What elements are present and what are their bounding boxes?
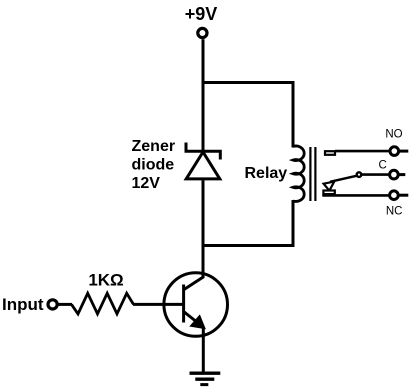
wire NO stub	[400, 150, 409, 153]
NC fixed contact pad	[323, 191, 334, 195]
svg-text:Zener: Zener	[132, 138, 176, 155]
wire NO contact to NO terminal	[335, 150, 390, 153]
terminal Input	[48, 300, 57, 309]
wire top branch to relay	[202, 81, 294, 84]
armature moving contact triangle	[324, 182, 335, 191]
relay coil L1	[293, 146, 304, 201]
wire NC contact to NC terminal	[322, 194, 389, 197]
armature diagonal	[330, 176, 357, 182]
transistor Q1 emitter diagonal	[184, 312, 198, 324]
svg-text:C: C	[378, 159, 386, 171]
armature pivot	[357, 172, 362, 177]
wire relay branch down to coil	[292, 81, 295, 148]
terminal C	[390, 170, 399, 179]
zener diode D1 triangle	[186, 152, 220, 179]
zener diode D1 cathode bar with ticks	[186, 143, 220, 160]
wire input terminal to resistor	[58, 303, 72, 306]
ground	[190, 372, 221, 375]
wire emitter down to ground	[202, 327, 205, 374]
relay core line 1	[309, 147, 311, 201]
wire bottom branch back to main line	[202, 244, 294, 247]
terminal +9V	[198, 28, 207, 37]
wire resistor to base	[133, 303, 184, 306]
wire zener anode down to transistor collector	[202, 180, 205, 277]
svg-text:+9V: +9V	[185, 4, 218, 24]
wire NC stub	[399, 194, 408, 197]
wire from +9V terminal down to zener cathode	[202, 39, 205, 151]
wire C stub	[399, 173, 405, 176]
svg-text:12V: 12V	[132, 175, 161, 192]
svg-text:Input: Input	[2, 295, 44, 314]
resistor R1 1K zigzag	[72, 293, 134, 314]
transistor Q1 emitter arrow	[191, 316, 205, 328]
svg-text:Relay: Relay	[245, 165, 288, 182]
transistor Q1 collector diagonal	[184, 277, 204, 290]
NO fixed contact pad	[325, 151, 335, 155]
svg-text:1KΩ: 1KΩ	[88, 271, 123, 290]
terminal NC	[390, 191, 399, 200]
svg-text:diode: diode	[132, 157, 175, 174]
transistor Q1 base bar	[182, 285, 185, 323]
svg-text:NC: NC	[386, 206, 403, 218]
svg-text:NO: NO	[385, 129, 402, 141]
relay core line 2	[314, 147, 316, 201]
transistor Q1 circle	[164, 273, 228, 337]
wire coil bottom to bottom branch	[292, 200, 295, 247]
wire C pivot to C terminal	[361, 173, 389, 176]
terminal NO	[390, 147, 399, 156]
